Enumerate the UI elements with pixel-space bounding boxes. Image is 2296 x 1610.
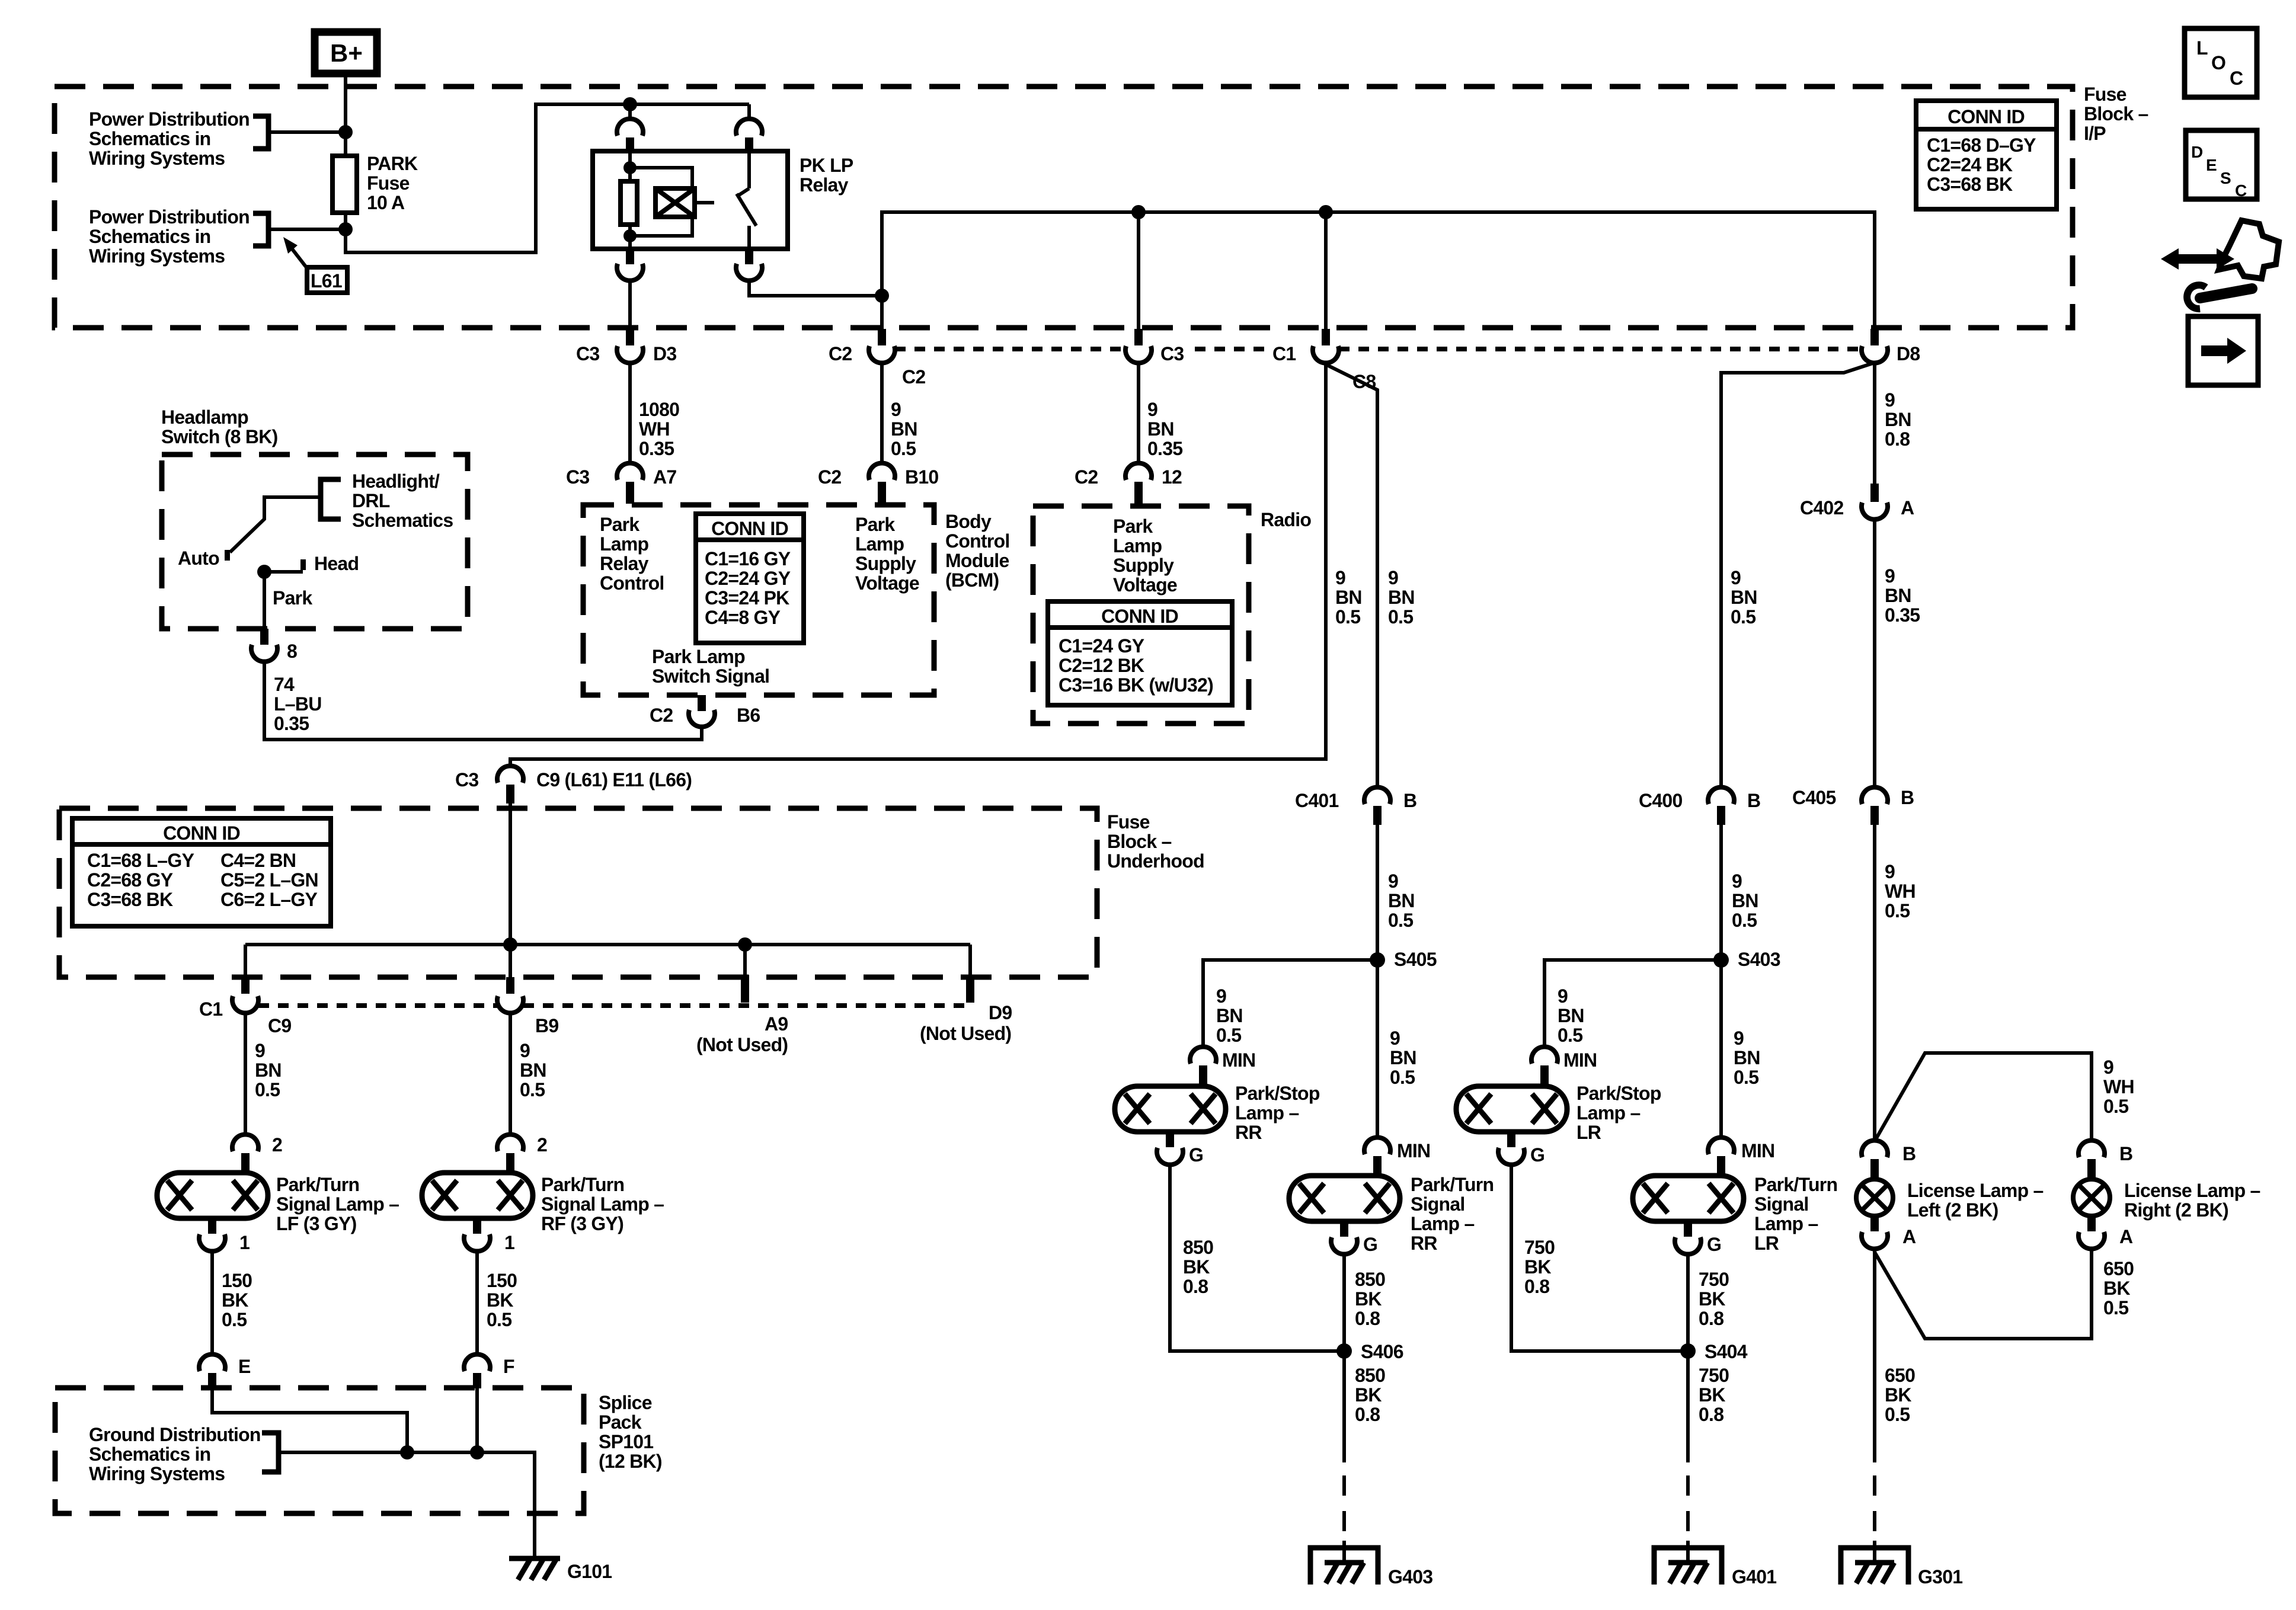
svg-text:9: 9 <box>1734 1028 1744 1049</box>
svg-text:BN: BN <box>1216 1005 1243 1026</box>
svg-text:750: 750 <box>1524 1237 1555 1258</box>
svg-text:9: 9 <box>1731 567 1741 588</box>
svg-text:Park/Turn: Park/Turn <box>1411 1174 1494 1195</box>
svg-text:0.5: 0.5 <box>1388 606 1413 628</box>
Park/Turn Signal Lamp - LR label <box>1754 1174 1837 1254</box>
svg-text:Park/Turn: Park/Turn <box>541 1174 624 1195</box>
bracket to Headlight/DRL reference <box>321 479 341 519</box>
Park Lamp Relay Control label <box>600 514 664 594</box>
svg-text:BN: BN <box>1732 890 1758 911</box>
svg-text:License Lamp –: License Lamp – <box>1907 1180 2044 1201</box>
svg-text:G: G <box>1363 1234 1377 1255</box>
svg-text:Underhood: Underhood <box>1107 850 1204 872</box>
svg-text:BK: BK <box>1699 1288 1725 1310</box>
svg-text:Lamp: Lamp <box>855 533 904 555</box>
svg-text:Supply: Supply <box>1113 555 1174 576</box>
svg-text:1: 1 <box>504 1232 514 1253</box>
connector C2 B6 (BCM park lamp switch signal) <box>650 695 760 727</box>
connector G (park/stop lamp LR) <box>1498 1132 1544 1166</box>
connector MIN (park/turn lamp RR) <box>1364 1137 1430 1176</box>
svg-text:G101: G101 <box>567 1561 612 1582</box>
svg-text:Schematics: Schematics <box>352 510 453 531</box>
svg-text:Headlight/: Headlight/ <box>352 470 440 492</box>
svg-text:0.8: 0.8 <box>1183 1276 1208 1297</box>
svg-text:9: 9 <box>1388 870 1398 892</box>
svg-text:RF (3 GY): RF (3 GY) <box>541 1213 623 1234</box>
node bus input junction <box>503 937 517 952</box>
node splice E junction <box>400 1445 414 1459</box>
node bus tap C1 <box>1319 205 1333 219</box>
Radio dashed box <box>1033 506 1249 724</box>
svg-text:750: 750 <box>1699 1365 1729 1386</box>
wire 9 BN 0.5 (S405 to park/turn RR) <box>1376 960 1379 1137</box>
svg-text:1080: 1080 <box>639 399 679 420</box>
connector MIN (park/turn lamp LR) <box>1708 1137 1774 1176</box>
svg-text:0.5: 0.5 <box>1731 606 1755 628</box>
lamp Park/Stop LR <box>1456 1086 1567 1132</box>
svg-text:9: 9 <box>1885 565 1895 587</box>
svg-text:Body: Body <box>945 511 992 532</box>
pin A9 stub (not used) <box>696 945 788 1055</box>
svg-text:D: D <box>2191 143 2203 161</box>
svg-text:0.8: 0.8 <box>1699 1308 1723 1329</box>
svg-text:9: 9 <box>520 1040 530 1061</box>
connector pin 1 (RF lamp) <box>464 1218 514 1253</box>
svg-text:0.35: 0.35 <box>274 713 309 734</box>
svg-text:SP101: SP101 <box>599 1431 653 1452</box>
svg-text:B: B <box>1403 790 1416 811</box>
connector pin 1 (LF lamp) <box>199 1218 250 1253</box>
wire 9 BN 0.5 (B9 to RF lamp) <box>509 1013 512 1134</box>
svg-text:8: 8 <box>287 641 297 662</box>
svg-text:0.8: 0.8 <box>1355 1404 1380 1425</box>
svg-text:0.5: 0.5 <box>1885 1404 1910 1425</box>
svg-text:BK: BK <box>222 1289 248 1311</box>
wire C9/E11 into underhood fuse block <box>509 804 512 945</box>
relay coil element <box>621 181 637 225</box>
node battery feed upper junction <box>338 125 353 139</box>
svg-text:Power Distribution: Power Distribution <box>89 206 250 228</box>
node bus riser junction <box>875 289 889 303</box>
relay suppressor X-box element <box>655 188 714 217</box>
svg-text:G401: G401 <box>1732 1566 1776 1587</box>
svg-text:10 A: 10 A <box>367 192 405 213</box>
svg-text:C401: C401 <box>1295 790 1339 811</box>
bracket to Ground Distribution reference <box>262 1433 279 1472</box>
svg-text:S: S <box>2220 169 2231 187</box>
svg-text:S404: S404 <box>1705 1341 1748 1362</box>
svg-text:D8: D8 <box>1897 343 1920 364</box>
svg-text:F: F <box>503 1356 514 1377</box>
icon forward arrow box <box>2188 316 2258 385</box>
svg-text:BN: BN <box>1335 587 1362 608</box>
Park Lamp Supply Voltage label (radio) <box>1113 516 1177 596</box>
wire bus drop to C9 output <box>244 945 247 977</box>
svg-text:0.35: 0.35 <box>639 438 674 459</box>
wire 750 BK 0.8 (S404 to G401) <box>1686 1351 1690 1462</box>
svg-text:2: 2 <box>272 1134 282 1156</box>
wire 9 BN 0.5 (C9 to LF lamp) <box>244 1013 247 1134</box>
connector relay pin (coil output) <box>617 249 643 329</box>
svg-text:0.5: 0.5 <box>1388 910 1413 931</box>
svg-text:Fuse: Fuse <box>2084 84 2126 105</box>
svg-text:9: 9 <box>1147 399 1157 420</box>
svg-text:E: E <box>238 1356 251 1377</box>
connector C3 C9 (L61) E11 (L66) <box>455 766 692 804</box>
svg-text:C3: C3 <box>576 343 599 364</box>
wire D8 branch to C400 <box>1721 363 1875 787</box>
svg-text:Park/Turn: Park/Turn <box>1754 1174 1837 1195</box>
lamp Park/Stop RR <box>1115 1086 1226 1132</box>
svg-text:850: 850 <box>1355 1269 1385 1290</box>
connector E (splice pack) <box>199 1354 251 1388</box>
svg-text:BN: BN <box>1734 1047 1760 1068</box>
dotted connector gang line (underhood) <box>258 1003 970 1008</box>
connector MIN (park/stop lamp RR) <box>1190 1046 1255 1085</box>
Park/Turn Signal Lamp - RR label <box>1411 1174 1494 1254</box>
svg-text:Ground Distribution: Ground Distribution <box>89 1424 261 1445</box>
svg-text:Schematics in: Schematics in <box>89 1443 210 1465</box>
svg-text:Block –: Block – <box>2084 103 2148 124</box>
svg-text:C4=2 BN: C4=2 BN <box>220 850 296 871</box>
svg-text:9: 9 <box>1732 870 1742 892</box>
svg-text:0.5: 0.5 <box>2103 1096 2128 1117</box>
svg-text:BK: BK <box>487 1289 513 1311</box>
svg-text:G301: G301 <box>1918 1566 1962 1587</box>
bulb license lamp right <box>2073 1179 2110 1216</box>
svg-text:Right (2 BK): Right (2 BK) <box>2124 1199 2228 1221</box>
connector D8 (fuse block output) <box>1862 329 1920 364</box>
svg-text:LF (3 GY): LF (3 GY) <box>276 1213 357 1234</box>
wire 150 BK 0.5 (LF lamp ground) <box>210 1251 214 1354</box>
icon DESC reference box <box>2186 130 2257 200</box>
connector G (park/turn lamp LR) <box>1675 1221 1721 1255</box>
ground G101 <box>509 1558 612 1582</box>
svg-text:Park: Park <box>600 514 639 535</box>
svg-text:Left (2 BK): Left (2 BK) <box>1907 1199 1998 1221</box>
Park Lamp Supply Voltage label (BCM) <box>855 514 919 594</box>
svg-text:D9: D9 <box>989 1002 1012 1023</box>
svg-text:RR: RR <box>1235 1122 1262 1143</box>
svg-text:Supply: Supply <box>855 553 916 574</box>
svg-text:0.8: 0.8 <box>1699 1404 1723 1425</box>
svg-text:MIN: MIN <box>1563 1049 1597 1071</box>
bulb license lamp left <box>1856 1179 1893 1216</box>
svg-text:9: 9 <box>1885 861 1895 882</box>
svg-text:BN: BN <box>1147 418 1174 440</box>
svg-text:BK: BK <box>1355 1384 1382 1406</box>
svg-text:A7: A7 <box>653 466 676 488</box>
Park/Stop Lamp - RR label <box>1235 1083 1320 1143</box>
svg-text:C3=68 BK: C3=68 BK <box>1927 174 2013 195</box>
svg-text:C2=68 GY: C2=68 GY <box>87 869 173 891</box>
PK LP Relay label <box>800 155 853 196</box>
svg-text:D3: D3 <box>653 343 676 364</box>
lamp Park/Turn Signal LR <box>1633 1176 1744 1221</box>
svg-text:C2: C2 <box>1075 466 1098 488</box>
wire park output inside switch <box>263 572 266 629</box>
wire bus drop to C3 <box>1137 212 1140 329</box>
wire bus drop to C1 <box>1324 212 1328 329</box>
wire C1 to underhood feed (9 BN) <box>510 363 1326 766</box>
svg-text:C: C <box>2230 68 2243 89</box>
svg-text:Voltage: Voltage <box>855 572 919 594</box>
svg-text:1: 1 <box>239 1232 250 1253</box>
svg-text:C3=68 BK: C3=68 BK <box>87 889 173 910</box>
svg-text:WH: WH <box>1885 881 1916 902</box>
svg-text:(Not Used): (Not Used) <box>920 1023 1011 1044</box>
svg-text:Radio: Radio <box>1261 509 1311 530</box>
svg-text:Park: Park <box>855 514 895 535</box>
svg-text:C2=12 BK: C2=12 BK <box>1059 655 1144 676</box>
svg-text:Signal Lamp –: Signal Lamp – <box>541 1193 664 1215</box>
connector B (license lamp right) <box>2078 1140 2132 1179</box>
svg-text:BK: BK <box>1183 1256 1210 1278</box>
svg-text:Park: Park <box>273 587 312 609</box>
svg-text:BN: BN <box>1390 1047 1416 1068</box>
svg-text:B+: B+ <box>330 39 363 67</box>
svg-text:C2: C2 <box>829 343 852 364</box>
svg-text:(12 BK): (12 BK) <box>599 1451 662 1472</box>
svg-text:Lamp –: Lamp – <box>1576 1102 1641 1124</box>
svg-text:PK LP: PK LP <box>800 155 853 176</box>
svg-text:Park/Stop: Park/Stop <box>1576 1083 1661 1104</box>
svg-text:L: L <box>2196 37 2208 59</box>
svg-text:L61: L61 <box>311 270 342 292</box>
svg-text:0.5: 0.5 <box>1216 1025 1241 1046</box>
wire S403 branch to park/stop LR <box>1544 960 1721 1046</box>
wire PARK fuse output <box>346 104 749 252</box>
wire lower reference to fuse output <box>268 228 346 231</box>
svg-text:C3=16 BK (w/U32): C3=16 BK (w/U32) <box>1059 674 1213 696</box>
Headlamp Switch (8 BK) label <box>161 406 278 447</box>
wire 9 BN 0.35 (C402 to C405) <box>1873 520 1876 787</box>
svg-text:2: 2 <box>537 1134 547 1156</box>
svg-text:Control: Control <box>600 572 664 594</box>
svg-text:A: A <box>2119 1226 2133 1247</box>
svg-text:A: A <box>1901 497 1914 518</box>
svg-text:0.8: 0.8 <box>1355 1308 1380 1329</box>
svg-text:WH: WH <box>2103 1076 2134 1097</box>
svg-text:MIN: MIN <box>1222 1049 1255 1071</box>
svg-text:650: 650 <box>1885 1365 1915 1386</box>
svg-text:C6=2 L–GY: C6=2 L–GY <box>220 889 318 910</box>
node relay feed junction <box>623 97 637 111</box>
svg-text:B: B <box>1901 787 1914 808</box>
ground G401 <box>1654 1541 1776 1587</box>
svg-text:Power Distribution: Power Distribution <box>89 108 250 130</box>
svg-text:LR: LR <box>1576 1122 1601 1143</box>
svg-text:0.5: 0.5 <box>1732 910 1757 931</box>
wire 650 BK 0.5 (license lamps to G301) <box>1873 1249 1876 1462</box>
svg-text:A: A <box>1902 1226 1916 1247</box>
svg-text:0.5: 0.5 <box>222 1309 247 1330</box>
ground G403 <box>1310 1541 1432 1587</box>
svg-text:C5=2 L–GN: C5=2 L–GN <box>220 869 318 891</box>
svg-text:Module: Module <box>945 550 1009 571</box>
Body Control Module dashed box <box>583 505 934 695</box>
connector pin 2 (LF lamp) <box>232 1134 282 1173</box>
svg-text:Wiring Systems: Wiring Systems <box>89 148 225 169</box>
Power Distribution reference label (lower) <box>89 206 250 267</box>
svg-text:C1=16 GY: C1=16 GY <box>705 548 791 569</box>
svg-text:850: 850 <box>1183 1237 1213 1258</box>
svg-text:BN: BN <box>255 1060 282 1081</box>
svg-text:C2: C2 <box>818 466 841 488</box>
svg-text:C2=24 GY: C2=24 GY <box>705 568 791 589</box>
svg-text:(Not Used): (Not Used) <box>696 1034 788 1055</box>
node lower feed junction <box>338 222 353 236</box>
svg-text:I/P: I/P <box>2084 123 2106 144</box>
svg-text:9: 9 <box>1388 567 1398 588</box>
Fuse Block - I/P label <box>2084 84 2148 144</box>
relay switch contact and blade <box>737 151 756 249</box>
connector C2 B10 (BCM park lamp supply voltage) <box>818 463 938 504</box>
CONN ID table (radio) <box>1048 601 1232 705</box>
svg-text:Relay: Relay <box>600 553 649 574</box>
wire 750 BK 0.8 (park/turn LR ground) <box>1686 1254 1690 1351</box>
svg-text:E: E <box>2206 156 2217 174</box>
connector C402 A <box>1800 484 1914 520</box>
connector G (park/stop lamp RR) <box>1157 1132 1203 1166</box>
Headlight/DRL Schematics label <box>352 470 453 531</box>
svg-text:BN: BN <box>1731 587 1757 608</box>
svg-text:BN: BN <box>1885 409 1911 430</box>
svg-text:C2=24 BK: C2=24 BK <box>1927 154 2013 175</box>
bracket to lower Power Distribution reference <box>253 213 268 246</box>
svg-text:C9: C9 <box>268 1015 291 1036</box>
svg-text:Headlamp: Headlamp <box>161 406 248 428</box>
svg-text:Schematics in: Schematics in <box>89 226 210 247</box>
connector C405 B <box>1792 787 1914 825</box>
icon LOC reference box <box>2185 28 2257 97</box>
svg-text:9: 9 <box>1390 1028 1400 1049</box>
wire 150 BK 0.5 (RF lamp ground) <box>475 1251 479 1354</box>
connector relay pin (switch feed) <box>736 104 762 152</box>
wire switch common to DRL bracket <box>230 497 321 552</box>
connector C2 12 (radio park lamp supply) <box>1075 463 1182 505</box>
svg-text:9: 9 <box>255 1040 265 1061</box>
svg-text:0.8: 0.8 <box>1885 428 1910 450</box>
Ground Distribution reference label <box>89 1424 261 1484</box>
svg-text:G: G <box>1530 1144 1544 1166</box>
wire B+ to PARK fuse <box>344 73 347 156</box>
svg-text:BN: BN <box>891 418 917 440</box>
pin D9 stub (not used) <box>920 945 1012 1044</box>
svg-text:C1=24 GY: C1=24 GY <box>1059 635 1144 657</box>
svg-text:BK: BK <box>2103 1278 2130 1299</box>
svg-text:150: 150 <box>222 1270 252 1291</box>
connector G (park/turn lamp RR) <box>1331 1221 1377 1255</box>
svg-text:CONN ID: CONN ID <box>1101 606 1178 627</box>
CONN ID table (underhood fuse block) <box>72 818 331 926</box>
wire 9 BN 0.5 (C400 to S403) <box>1719 825 1723 960</box>
svg-text:0.5: 0.5 <box>891 438 916 459</box>
node Park position junction <box>257 565 271 579</box>
Park/Turn Signal Lamp - RF label <box>541 1174 664 1234</box>
svg-text:C1=68 D–GY: C1=68 D–GY <box>1927 135 2036 156</box>
svg-text:C3=24 PK: C3=24 PK <box>705 587 789 609</box>
wire 850 BK 0.8 (park/turn RR ground) <box>1342 1254 1346 1351</box>
svg-text:Park: Park <box>1113 516 1153 537</box>
icon wrench <box>2187 285 2252 309</box>
svg-text:Signal Lamp –: Signal Lamp – <box>276 1193 399 1215</box>
svg-text:C400: C400 <box>1639 790 1683 811</box>
wire upper reference to B+ feed <box>268 130 346 134</box>
svg-text:B9: B9 <box>535 1015 558 1036</box>
wire park lamp supply bus <box>882 212 1875 329</box>
svg-text:Lamp: Lamp <box>600 533 649 555</box>
lamp Park/Turn Signal RR <box>1289 1176 1400 1221</box>
connector MIN (park/stop lamp LR) <box>1531 1046 1597 1085</box>
svg-text:BN: BN <box>1558 1005 1584 1026</box>
svg-text:BK: BK <box>1699 1384 1725 1406</box>
svg-text:0.8: 0.8 <box>1524 1276 1549 1297</box>
svg-text:Auto: Auto <box>178 548 219 569</box>
svg-text:MIN: MIN <box>1397 1140 1430 1161</box>
svg-text:Switch Signal: Switch Signal <box>652 665 769 687</box>
svg-text:Pack: Pack <box>599 1411 642 1433</box>
relay coil branch wire <box>628 151 632 249</box>
connector C2 C2 (fuse block output to BCM) <box>829 329 925 388</box>
svg-text:Park Lamp: Park Lamp <box>652 646 745 667</box>
svg-text:CONN ID: CONN ID <box>711 518 788 539</box>
svg-text:750: 750 <box>1699 1269 1729 1290</box>
svg-text:150: 150 <box>487 1270 517 1291</box>
svg-text:Wiring Systems: Wiring Systems <box>89 245 225 267</box>
svg-text:PARK: PARK <box>367 153 418 174</box>
wire 750 BK 0.8 (park/stop LR ground) <box>1511 1165 1688 1351</box>
wire E leg inside splice pack <box>212 1388 407 1452</box>
svg-text:9: 9 <box>1216 985 1226 1007</box>
wire 9 BN 0.5 (C401 to S405) <box>1376 825 1379 960</box>
svg-text:BN: BN <box>1388 890 1415 911</box>
connector A (license lamp left) <box>1862 1216 1916 1249</box>
CONN ID table (BCM) <box>696 514 804 643</box>
svg-text:B: B <box>1902 1143 1916 1164</box>
svg-text:Relay: Relay <box>800 174 849 196</box>
svg-text:C9 (L61) E11 (L66): C9 (L61) E11 (L66) <box>536 769 692 790</box>
node splice S405 <box>1370 952 1385 968</box>
Park/Turn Signal Lamp - LF label <box>276 1174 399 1234</box>
node splice S406 <box>1336 1343 1352 1359</box>
Splice Pack SP101 (12 BK) label <box>599 1392 662 1472</box>
svg-text:S406: S406 <box>1361 1341 1403 1362</box>
svg-text:0.5: 0.5 <box>1558 1025 1582 1046</box>
svg-text:BK: BK <box>1355 1288 1382 1310</box>
wire 9 BN 0.8 (D8 to C402) <box>1873 364 1876 484</box>
svg-text:C3: C3 <box>566 466 589 488</box>
connector C400 B <box>1639 787 1760 825</box>
svg-text:Lamp –: Lamp – <box>1754 1213 1818 1234</box>
connector B9 (underhood output RF) <box>497 977 558 1036</box>
svg-text:0.5: 0.5 <box>2103 1297 2128 1318</box>
svg-text:G: G <box>1189 1144 1203 1166</box>
wire 1080 WH 0.35 (D3 to A7) <box>628 363 632 463</box>
svg-text:MIN: MIN <box>1741 1140 1774 1161</box>
svg-text:Fuse: Fuse <box>367 172 410 194</box>
node bus tap A9 <box>738 937 752 952</box>
svg-text:CONN ID: CONN ID <box>163 822 240 844</box>
svg-text:Fuse: Fuse <box>1107 811 1150 833</box>
svg-text:9: 9 <box>1885 389 1895 411</box>
svg-text:Signal: Signal <box>1754 1193 1809 1215</box>
svg-text:B: B <box>2119 1143 2132 1164</box>
svg-text:C405: C405 <box>1792 787 1836 808</box>
wire underhood distribution bus <box>245 943 970 946</box>
lamp Park/Turn Signal RF <box>422 1173 533 1218</box>
ground G301 <box>1841 1541 1962 1587</box>
